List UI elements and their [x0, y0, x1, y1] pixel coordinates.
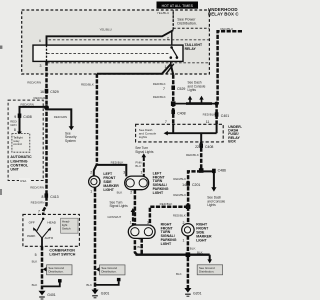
- relay contact: [170, 46, 179, 59]
- wire from junction to ground G201: [187, 257, 190, 289]
- connector C408 on RED/BLK drop: [171, 110, 185, 116]
- svg-text:C408: C408: [205, 145, 213, 149]
- junction square on RED/BLK: [171, 101, 176, 106]
- connector C201 pin 14: [182, 181, 200, 186]
- svg-text:RED/GRN: RED/GRN: [21, 103, 34, 107]
- svg-text:YEL/BLU: YEL/BLU: [100, 28, 112, 32]
- svg-text:1: 1: [130, 220, 132, 224]
- branch wire to security system: [47, 109, 72, 126]
- connector C413 pin 8: [30, 185, 58, 198]
- svg-text:C401: C401: [221, 114, 229, 118]
- svg-text:See GroundDistribution.: See GroundDistribution.: [48, 266, 64, 273]
- ground G301: [92, 290, 110, 298]
- page edge mark left: [0, 46, 2, 49]
- branch left to front lights: [188, 171, 201, 206]
- svg-text:RED/BLK: RED/BLK: [220, 27, 233, 31]
- wire to ground G401: [41, 246, 44, 289]
- left front turn signal parking light bulb: [125, 176, 149, 190]
- svg-text:RED/BLK: RED/BLK: [111, 161, 124, 165]
- svg-text:RED/BLK: RED/BLK: [153, 95, 166, 99]
- svg-text:RED/BLK: RED/BLK: [173, 213, 186, 217]
- svg-text:COMBINATIONLIGHT SWITCH: COMBINATIONLIGHT SWITCH: [49, 249, 75, 257]
- junction node at left wire: [44, 105, 49, 110]
- svg-text:5: 5: [35, 253, 37, 257]
- svg-text:G301: G301: [101, 291, 110, 295]
- svg-text:3: 3: [40, 64, 42, 68]
- svg-text:RED/GRN: RED/GRN: [30, 185, 44, 189]
- svg-text:3: 3: [123, 171, 125, 175]
- svg-text:7: 7: [38, 210, 40, 214]
- svg-text:RED/GRN: RED/GRN: [34, 96, 48, 100]
- arrow to security system: [69, 126, 74, 130]
- ground bus bottom right: [136, 254, 210, 256]
- svg-text:C529: C529: [50, 90, 58, 94]
- svg-text:BLK: BLK: [197, 250, 203, 254]
- svg-text:HOT AT ALL TIMES: HOT AT ALL TIMES: [162, 4, 194, 8]
- dash and console lights branch: [173, 96, 216, 104]
- svg-text:RED/GRN: RED/GRN: [27, 81, 41, 85]
- ground G201: [184, 288, 201, 296]
- ground G401: [39, 291, 56, 299]
- left parking ground wire drop: [135, 190, 137, 255]
- svg-text:BLK: BLK: [190, 246, 196, 250]
- left front side marker light bulb: [89, 176, 100, 187]
- svg-text:RED/BLK: RED/BLK: [186, 153, 199, 157]
- left ground branch stub: [42, 279, 62, 286]
- wire left parking feed branch at bulbs: [94, 164, 127, 177]
- svg-text:C486: C486: [218, 168, 226, 172]
- svg-text:RED/GRN: RED/GRN: [54, 115, 67, 119]
- relay internal dashed bus lower: [47, 62, 209, 64]
- svg-text:1: 1: [90, 189, 92, 193]
- svg-text:8: 8: [14, 128, 16, 132]
- turn signal stub right with up arrow: [131, 208, 136, 225]
- svg-text:RED/BLK: RED/BLK: [160, 202, 173, 206]
- svg-text:6: 6: [39, 39, 41, 43]
- middle ground branch stub: [95, 278, 121, 285]
- wire C413 to combination switch: [43, 197, 46, 216]
- wire relay pin3 down (RED/GRN main left): [45, 61, 48, 196]
- svg-text:2: 2: [90, 171, 92, 175]
- svg-text:RED/BLK: RED/BLK: [173, 177, 186, 181]
- See Ground Distribution box left: [43, 265, 72, 275]
- svg-text:16: 16: [40, 90, 44, 94]
- right wire continues to box: [215, 104, 218, 125]
- svg-text:RED/BLK: RED/BLK: [173, 193, 186, 197]
- See Ground Distribution box right: [197, 265, 222, 275]
- wire to right side marker: [187, 207, 190, 225]
- svg-text:USA: USA: [20, 179, 27, 183]
- branch to right parking light pin 3: [150, 207, 188, 226]
- svg-text:22: 22: [195, 145, 199, 149]
- wire RED/BLK relay output right drop: [172, 75, 175, 125]
- svg-text:BLK: BLK: [86, 283, 92, 287]
- junction square right lights: [186, 204, 191, 209]
- underhood relay box C outline: [22, 10, 210, 74]
- svg-text:RED/GRN: RED/GRN: [10, 119, 17, 126]
- arrowhead into taillight relay control: [17, 132, 22, 136]
- connector C408 pin 22 exit: [195, 144, 213, 149]
- svg-text:C201: C201: [192, 183, 200, 187]
- svg-text:RED/BLK: RED/BLK: [81, 83, 94, 87]
- bus arrow to ground distribution: [207, 255, 212, 264]
- branch to C486 and dash lights: [201, 168, 226, 191]
- svg-text:BLK: BLK: [176, 272, 182, 276]
- svg-text:BLK: BLK: [32, 283, 38, 287]
- relay output split to two drops: [97, 61, 174, 74]
- relay internal dashed coil link: [47, 53, 170, 55]
- junction dot right wire: [215, 102, 219, 106]
- automatic lighting control unit box: [8, 100, 43, 180]
- svg-text:11: 11: [206, 120, 210, 124]
- junction square: [199, 168, 204, 173]
- svg-text:7: 7: [165, 120, 167, 124]
- svg-text:2: 2: [130, 190, 132, 194]
- svg-text:RED/GRN: RED/GRN: [31, 201, 45, 205]
- USA tag on box edge: [19, 178, 30, 183]
- svg-text:UNDERHOODRELAY BOX C: UNDERHOODRELAY BOX C: [208, 7, 239, 17]
- right marker ground wire: [187, 236, 190, 255]
- svg-text:1: 1: [183, 239, 185, 243]
- svg-text:C413: C413: [50, 195, 58, 199]
- page edge mark lower left: [0, 189, 2, 195]
- under-dash fuse/relay box: [136, 124, 224, 142]
- right front side marker light bulb: [182, 224, 194, 236]
- svg-text:PARK: PARK: [27, 234, 36, 238]
- svg-text:HEAD: HEAD: [47, 220, 56, 224]
- svg-text:G201: G201: [193, 291, 202, 295]
- See Ground Distribution box middle: [96, 265, 125, 275]
- svg-text:BLK: BLK: [32, 259, 38, 263]
- junction square ground bus: [186, 252, 191, 257]
- svg-text:C529: C529: [177, 87, 185, 91]
- svg-text:AUTO: AUTO: [45, 236, 54, 240]
- right edge feed wire: [218, 31, 242, 103]
- left marker ground wire long drop: [94, 187, 97, 290]
- switch blade and arrows: [33, 218, 51, 247]
- svg-text:OFF: OFF: [29, 220, 35, 224]
- combination light switch box: [23, 214, 80, 246]
- wire down from pin 22: [200, 142, 203, 169]
- relay coil element: [46, 45, 48, 61]
- svg-text:8: 8: [41, 195, 43, 199]
- svg-text:RED/BLK: RED/BLK: [203, 112, 216, 116]
- connector C401: [215, 112, 229, 118]
- svg-text:See GroundDistribution.: See GroundDistribution.: [199, 266, 215, 273]
- svg-text:C408: C408: [23, 115, 31, 119]
- svg-text:14: 14: [182, 183, 186, 187]
- branch wire to ALC unit: [20, 107, 47, 132]
- right parking ground wire: [140, 238, 143, 254]
- svg-text:9: 9: [14, 115, 16, 119]
- feed wire from fuse to relay: [47, 30, 174, 45]
- connector C529 pin 7: [163, 86, 185, 91]
- switch positions OFF HEAD PARK AUTO: [27, 220, 57, 240]
- taillight relay outline: [33, 45, 183, 61]
- svg-text:See GroundDistribution.: See GroundDistribution.: [101, 266, 117, 273]
- power distribution partition: [173, 10, 209, 30]
- relay internal dashed bus upper: [49, 39, 210, 41]
- fuse wire stub: [172, 12, 174, 30]
- connector C529 pin 16: [40, 89, 59, 94]
- svg-text:G401: G401: [47, 293, 56, 297]
- connector C408 pin 9: [14, 114, 31, 119]
- svg-text:YEL/BLU: YEL/BLU: [157, 11, 169, 15]
- turn signal stub left with up arrow: [142, 153, 147, 176]
- page background: [0, 0, 242, 300]
- wire RED/BLK parking feed down left-center: [96, 74, 99, 164]
- svg-text:See PowerDistribution.: See PowerDistribution.: [177, 17, 196, 25]
- box internal bus with left arrow: [164, 124, 217, 142]
- svg-text:C408: C408: [177, 111, 185, 115]
- svg-text:BLK: BLK: [117, 190, 123, 194]
- headlight switch note: [61, 218, 78, 233]
- svg-text:GRN/WHT: GRN/WHT: [107, 215, 121, 219]
- svg-text:7: 7: [163, 87, 165, 91]
- svg-text:RED/BLK: RED/BLK: [153, 82, 166, 86]
- svg-text:1: 1: [140, 171, 142, 175]
- taillight relay control sub-box: [12, 134, 30, 153]
- right front turn signal parking light bulb: [128, 225, 155, 238]
- HOT AT ALL TIMES banner: [157, 2, 199, 9]
